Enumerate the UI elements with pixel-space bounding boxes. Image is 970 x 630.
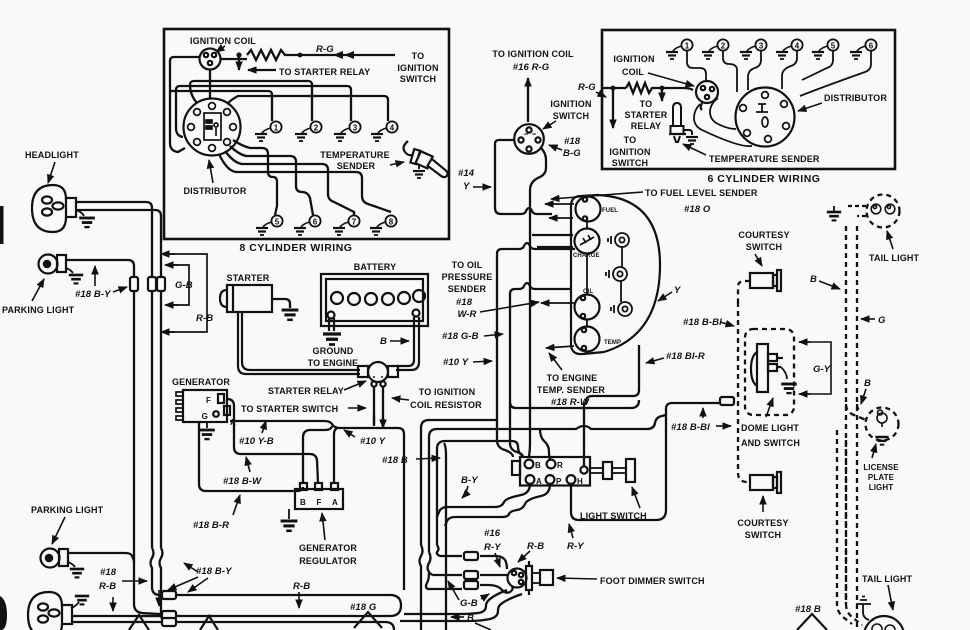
svg-text:PRESSURE: PRESSURE: [442, 272, 493, 282]
svg-text:TEMP: TEMP: [604, 340, 621, 346]
wire light switch H (R-Y) up to B-Bl: [571, 409, 666, 520]
ground temp sender (6cyl): [686, 137, 698, 144]
battery: [321, 274, 428, 326]
svg-text:R-B: R-B: [99, 581, 116, 592]
generator regulator: [295, 483, 343, 509]
arrow ignition coil label (6cyl): [648, 73, 694, 86]
arrow #18 B-G: [549, 145, 562, 150]
connector bottom B-Y: [162, 591, 176, 599]
indicator bulb 1: [608, 233, 629, 247]
distributor (6 cyl): [736, 88, 795, 147]
svg-text:#18: #18: [456, 297, 473, 308]
headlight 1 wires: [76, 202, 152, 548]
wire R-G to ignition switch: [300, 54, 395, 56]
dashed trunk to dome area: [738, 302, 750, 482]
svg-text:FOOT DIMMER SWITCH: FOOT DIMMER SWITCH: [600, 576, 705, 586]
pointer oil pressure sender: [480, 302, 539, 312]
wire regulator A up to #10 Y wire: [334, 428, 337, 484]
vertical B wire 446: [445, 455, 447, 630]
starter relay: [358, 362, 398, 387]
svg-text:7: 7: [352, 218, 357, 227]
svg-text:SWITCH: SWITCH: [745, 530, 781, 540]
svg-text:STARTER RELAY: STARTER RELAY: [268, 386, 344, 396]
parking light 1: [39, 255, 67, 274]
ignition coil C2: [696, 81, 718, 110]
svg-text:B: B: [535, 461, 541, 470]
svg-text:R-Y: R-Y: [567, 541, 585, 552]
svg-text:#16 R-G: #16 R-G: [513, 62, 550, 73]
arrow B: [390, 340, 409, 342]
wire ignition switch loop (#14 Y): [495, 140, 552, 214]
svg-text:B-G: B-G: [563, 148, 581, 159]
spark terminals 6cyl wires: [687, 51, 871, 146]
svg-text:TO STARTER RELAY: TO STARTER RELAY: [279, 67, 370, 77]
arrow temperature sender label (6cyl): [683, 144, 706, 155]
headlight 1: [32, 185, 76, 232]
svg-text:R-G: R-G: [578, 82, 596, 93]
arrow #18 B-Y right: [113, 287, 127, 292]
arrow #18 B: [416, 458, 440, 459]
vertical 497: [497, 254, 513, 457]
svg-text:6: 6: [313, 218, 318, 227]
terminal 5 (6cyl): [812, 39, 839, 59]
svg-text:PARKING LIGHT: PARKING LIGHT: [31, 505, 104, 515]
svg-text:G: G: [878, 315, 886, 326]
svg-text:F: F: [317, 498, 322, 507]
svg-text:TO: TO: [412, 51, 425, 61]
arrow distributor label: [209, 160, 213, 183]
ignition coil C1: [200, 49, 221, 70]
temperature sender (8cyl): [404, 141, 452, 178]
svg-text:AND SWITCH: AND SWITCH: [741, 438, 800, 448]
arrow B left: [451, 616, 464, 618]
svg-text:5: 5: [275, 218, 280, 227]
svg-text:COIL RESISTOR: COIL RESISTOR: [410, 400, 482, 410]
svg-text:R-B: R-B: [527, 541, 544, 552]
svg-text:#18 B-W: #18 B-W: [223, 476, 262, 487]
terminal 5: [256, 215, 283, 235]
svg-text:1: 1: [685, 42, 690, 51]
wires from coil resistor region: [421, 420, 497, 545]
courtesy switch 2: [750, 472, 781, 493]
wire generator F (#18 B-W): [227, 399, 318, 483]
wire B-Bl light switch H to connector: [666, 403, 719, 409]
svg-text:GROUND: GROUND: [313, 346, 354, 356]
svg-text:#18 B: #18 B: [795, 604, 821, 615]
connector dimmer 3: [464, 581, 478, 589]
license plate light ground: [875, 437, 888, 445]
courtesy switch 1 lead dashed: [738, 281, 750, 302]
arrow R-Y: [569, 524, 573, 538]
relay down wires: [374, 387, 383, 427]
terminal 7: [333, 215, 360, 235]
wire coil top feed: [220, 58, 247, 60]
svg-text:#18 Bl-R: #18 Bl-R: [666, 351, 705, 362]
svg-text:GENERATOR: GENERATOR: [299, 543, 357, 553]
wire light switch A loop: [437, 484, 530, 517]
terminal 2: [295, 121, 322, 141]
light switch box: [512, 457, 635, 486]
connector dimmer 2: [464, 571, 478, 579]
wire row1 to dimmer: [480, 556, 507, 569]
svg-text:#18 B-Bl: #18 B-Bl: [671, 422, 710, 433]
terminal 4 (6cyl): [776, 39, 803, 59]
arrow headlight label: [48, 162, 55, 183]
svg-text:TO STARTER SWITCH: TO STARTER SWITCH: [241, 404, 338, 414]
arrow license plate light: [872, 444, 876, 458]
svg-text:TO FUEL LEVEL SENDER: TO FUEL LEVEL SENDER: [645, 188, 758, 198]
oil gauge stub arrow: [541, 302, 574, 304]
arrow #18 Bl-R: [646, 358, 664, 363]
svg-text:STARTER: STARTER: [227, 273, 270, 283]
wire light switch P loop: [445, 484, 550, 526]
svg-text:#18 B-Bl: #18 B-Bl: [683, 317, 722, 328]
arrowheads to ignition switch: [333, 51, 354, 59]
plug wires upper bus: [170, 69, 391, 215]
svg-text:IGNITION: IGNITION: [397, 63, 438, 73]
connector bottom 3: [162, 618, 176, 626]
svg-text:SWITCH: SWITCH: [746, 242, 782, 252]
ground temp sender: [418, 164, 420, 169]
svg-text:R-Y: R-Y: [484, 542, 502, 553]
cluster outline: [571, 195, 660, 354]
svg-text:#10 Y-B: #10 Y-B: [239, 436, 274, 447]
svg-text:8: 8: [389, 218, 394, 227]
svg-text:H: H: [577, 477, 583, 486]
svg-text:1: 1: [274, 124, 279, 133]
license plate leads dashed: [846, 404, 866, 420]
terminal 2 (6cyl): [702, 39, 729, 59]
battery B cable to relay: [396, 317, 419, 370]
svg-text:TO ENGINE: TO ENGINE: [547, 373, 598, 383]
svg-text:SWITCH: SWITCH: [553, 111, 589, 121]
starter motor: [220, 285, 272, 312]
parking light 2: [41, 549, 69, 568]
arrow #18 B-Bl up: [702, 408, 704, 418]
svg-text:IGNITION: IGNITION: [609, 147, 650, 157]
arrow temperature sender label: [390, 162, 404, 165]
svg-text:W-R: W-R: [458, 309, 477, 320]
tail light 2 ground: [856, 597, 871, 621]
svg-text:TO ENGINE: TO ENGINE: [308, 358, 359, 368]
parking light 1 wire: [66, 260, 134, 548]
bottom bus wires with U-turn: [142, 595, 401, 616]
arrow ignition switch label: [543, 121, 556, 129]
arrow to starter relay (left): [248, 69, 276, 71]
wire oil feed y289: [510, 283, 571, 294]
svg-text:R-G: R-G: [316, 44, 334, 55]
oil gauge: [575, 295, 600, 320]
arrows #18 B-Y bottom: [184, 563, 198, 572]
dome light ground: [781, 367, 787, 379]
headlight 2: [28, 592, 72, 630]
wire dimmer row2: [433, 574, 462, 576]
svg-text:6: 6: [869, 42, 874, 51]
generator: [176, 390, 230, 422]
svg-text:5: 5: [831, 42, 836, 51]
tail light 1: [846, 195, 900, 228]
wire dimmer row3: [427, 588, 462, 590]
svg-text:COIL: COIL: [622, 67, 644, 77]
arrow B-Y: [462, 486, 468, 498]
svg-text:REGULATOR: REGULATOR: [299, 556, 357, 566]
ignition switch S1: [514, 124, 544, 154]
trunk jogs over parking wire: [134, 548, 160, 614]
svg-text:#10 Y: #10 Y: [443, 357, 470, 368]
arrow #18 R-B down: [112, 597, 114, 611]
chevron #18 G: [354, 612, 382, 628]
svg-text:R: R: [557, 461, 563, 470]
parking light 1 ground: [66, 268, 73, 273]
arrow #18 B-Y up: [94, 266, 96, 286]
svg-text:FUEL: FUEL: [602, 208, 618, 214]
arrow #18 B-R: [233, 495, 240, 515]
bracket G-Y: [806, 342, 831, 394]
arrow #18 B-Bl right: [716, 425, 731, 427]
temp gauge stub arrow: [546, 346, 574, 348]
svg-text:P: P: [556, 477, 562, 486]
arrows G-B: [448, 581, 459, 600]
charge gauge: [575, 229, 600, 254]
arrow to engine temp sender: [549, 353, 562, 370]
svg-text:SWITCH: SWITCH: [400, 74, 436, 84]
svg-text:B-Y: B-Y: [461, 475, 479, 486]
svg-text:TEMPERATURE: TEMPERATURE: [320, 150, 389, 160]
svg-text:HEADLIGHT: HEADLIGHT: [25, 150, 79, 160]
vertical 510: [510, 294, 523, 457]
arrow courtesy switch top: [755, 254, 762, 266]
svg-text:DISTRIBUTOR: DISTRIBUTOR: [184, 186, 247, 196]
chevron V bottom left: [129, 615, 149, 630]
arrow R-B dimmer: [518, 551, 530, 562]
arrow #10 Y trunk: [473, 361, 492, 362]
svg-text:PARKING LIGHT: PARKING LIGHT: [2, 305, 75, 315]
arrow G: [861, 318, 875, 320]
arrow B license: [861, 389, 866, 404]
svg-text:DISTRIBUTOR: DISTRIBUTOR: [824, 93, 887, 103]
junction dot: [660, 86, 665, 91]
svg-text:#14: #14: [458, 168, 475, 179]
svg-text:STARTER: STARTER: [625, 110, 668, 120]
svg-text:R-B: R-B: [196, 313, 213, 324]
tail light 2: [864, 616, 904, 630]
arrow to ignition coil resistor: [392, 398, 409, 400]
battery ground cable: [329, 318, 334, 331]
indicator bulb 3: [611, 302, 632, 316]
arrow ignition coil label: [216, 46, 225, 52]
svg-text:3: 3: [353, 124, 358, 133]
license plate light: [866, 408, 899, 441]
svg-text:LIGHT: LIGHT: [869, 483, 894, 492]
chevron #18 B: [797, 614, 827, 630]
cluster Bl-R wire down to light switch aux: [584, 345, 639, 466]
pointer to fuel level sender: [551, 192, 643, 199]
svg-text:B: B: [467, 613, 474, 624]
arrow parking light label: [32, 279, 44, 301]
svg-text:LICENSE: LICENSE: [863, 463, 899, 472]
svg-text:RELAY: RELAY: [631, 121, 661, 131]
connector headlight wire 1: [148, 277, 156, 291]
wire generator to regulator B (#18 B-R): [199, 422, 303, 491]
svg-text:#18 B-Y: #18 B-Y: [196, 566, 233, 577]
tail light 1 ground: [833, 206, 835, 211]
svg-text:2: 2: [314, 124, 319, 133]
arrow tail light 1: [887, 231, 893, 249]
svg-text:F: F: [206, 396, 211, 405]
ground starter: [282, 310, 299, 320]
svg-text:COURTESY: COURTESY: [737, 518, 788, 528]
svg-text:8 CYLINDER WIRING: 8 CYLINDER WIRING: [240, 242, 353, 254]
box frame 8 cylinder: [164, 29, 449, 239]
arrow #18 B-W: [246, 457, 250, 472]
terminal 3: [334, 121, 361, 141]
wire coil left loop: [170, 57, 200, 69]
svg-text:TAIL LIGHT: TAIL LIGHT: [862, 574, 913, 584]
svg-text:A: A: [536, 477, 542, 486]
arrow #16 R-Y: [495, 553, 500, 567]
svg-text:#18 G: #18 G: [350, 602, 377, 613]
pointer line B: [475, 623, 491, 630]
resistor (6cyl): [626, 83, 662, 93]
arrow #18 G-B: [484, 334, 503, 336]
wire ignition switch to light switch (B-G): [530, 148, 546, 430]
arrow R-B bottom down: [298, 592, 300, 608]
junction dot: [236, 52, 241, 57]
arrow #18 R-B: [122, 580, 147, 582]
svg-text:OIL: OIL: [583, 289, 594, 295]
wire coil to distributor: [209, 69, 211, 99]
svg-text:B: B: [300, 498, 306, 507]
chevron V bottom left 2: [200, 616, 218, 630]
vertical 530 to light switch B: [529, 430, 530, 457]
charge wire stubs: [532, 235, 573, 247]
temp gauge: [575, 327, 600, 352]
starter ground wire: [272, 299, 290, 308]
svg-text:#18 G-B: #18 G-B: [442, 331, 479, 342]
down arrow bottom left: [158, 590, 160, 606]
terminal 6: [294, 215, 321, 235]
arrow #10 Y wire: [344, 430, 355, 437]
resistor R (ballast): [247, 50, 300, 60]
svg-text:#16: #16: [484, 528, 501, 539]
arrow to starter relay (6cyl): [661, 90, 663, 101]
bracket G-B: [172, 265, 189, 305]
terminal 3 (6cyl): [740, 39, 767, 59]
svg-text:TO IGNITION COIL: TO IGNITION COIL: [492, 49, 574, 59]
arrow #18 B-Bl (cluster): [720, 322, 734, 326]
connector bottom 2: [162, 611, 176, 619]
wire dimmer row1: [437, 545, 462, 556]
svg-text:#18 O: #18 O: [684, 204, 711, 215]
arrow dome light label: [766, 398, 773, 417]
svg-text:SWITCH: SWITCH: [612, 158, 648, 168]
arrow generator regulator label: [322, 513, 325, 540]
svg-text:#18 B: #18 B: [382, 455, 408, 466]
connector dimmer 1: [464, 552, 478, 560]
svg-text:B: B: [810, 274, 817, 285]
svg-text:4: 4: [795, 42, 800, 51]
svg-text:IGNITION: IGNITION: [550, 99, 591, 109]
svg-text:TEMPERATURE SENDER: TEMPERATURE SENDER: [709, 154, 820, 164]
starter cable to relay: [238, 312, 360, 374]
courtesy switch 1: [750, 270, 781, 291]
svg-text:4: 4: [390, 124, 395, 133]
svg-text:PLATE: PLATE: [868, 473, 895, 482]
svg-text:TO OIL: TO OIL: [452, 260, 483, 270]
svg-text:IGNITION: IGNITION: [613, 54, 654, 64]
dashed tail trunk G: [856, 226, 858, 630]
terminal 8: [370, 215, 397, 235]
svg-text:3: 3: [759, 42, 764, 51]
cluster internal wires: [587, 222, 622, 327]
svg-text:G-B: G-B: [460, 598, 478, 609]
connector headlight wire 2: [157, 277, 165, 291]
svg-text:2: 2: [721, 42, 726, 51]
svg-text:G: G: [202, 412, 208, 421]
svg-text:G-Y: G-Y: [813, 364, 832, 375]
svg-text:TEMP. SENDER: TEMP. SENDER: [537, 385, 605, 395]
bracket R-B: [168, 254, 207, 332]
arrow parking light 2 label: [52, 517, 65, 544]
fuel gauge: [576, 197, 601, 222]
wire #10 Y to coil resistor area: [372, 428, 404, 590]
wire generator A (#10 Y-B): [230, 421, 372, 428]
svg-text:#18 B-Y: #18 B-Y: [75, 289, 112, 300]
arrow R-G: [596, 92, 606, 97]
junction dot: [611, 86, 616, 91]
foot dimmer switch: [508, 561, 554, 595]
svg-text:SENDER: SENDER: [337, 161, 376, 171]
wire row3 to dimmer: [480, 585, 513, 593]
connector B-Bl: [720, 397, 734, 405]
arrow #10 Y-B: [262, 421, 266, 433]
box frame 6 cylinder: [602, 30, 895, 169]
svg-text:TO: TO: [640, 99, 653, 109]
svg-text:COURTESY: COURTESY: [738, 230, 789, 240]
svg-text:SENDER: SENDER: [448, 284, 487, 294]
ground battery: [323, 334, 341, 345]
terminal 6 (6cyl): [850, 39, 877, 59]
dome light: [751, 344, 783, 392]
svg-text:TO IGNITION: TO IGNITION: [419, 387, 476, 397]
terminal 1 (6cyl): [666, 39, 693, 59]
regulator ground: [288, 509, 290, 519]
headlight 2 ground: [72, 602, 79, 608]
svg-text:#18: #18: [564, 136, 581, 147]
fuel gauge stub arrow: [545, 203, 574, 205]
svg-text:#10 Y: #10 Y: [360, 436, 387, 447]
junction dot 2: [298, 53, 303, 58]
wire regulator B up: [303, 426, 332, 483]
wire charge feed y249: [497, 243, 575, 254]
svg-text:IGNITION COIL: IGNITION COIL: [190, 36, 256, 46]
wire dimmer output sweep 1: [404, 590, 507, 614]
svg-text:R-B: R-B: [293, 581, 310, 592]
svg-text:#18: #18: [100, 567, 117, 578]
indicator bulb 2: [606, 267, 627, 281]
wire trunk to Bl-R junction: [510, 400, 639, 408]
wire feed into 6cyl box: [602, 87, 626, 89]
temperature sender (6cyl): [669, 103, 692, 142]
dashed dome box: [745, 329, 794, 415]
arrow #14 Y: [473, 186, 491, 188]
scan edge artifact bottom left: [0, 596, 7, 630]
distributor (8 cyl): [184, 99, 241, 156]
generator ground: [206, 422, 208, 428]
svg-text:TAIL LIGHT: TAIL LIGHT: [869, 253, 920, 263]
fuel gauge wire stub 2: [549, 217, 573, 219]
arrow to starter switch: [348, 407, 366, 409]
